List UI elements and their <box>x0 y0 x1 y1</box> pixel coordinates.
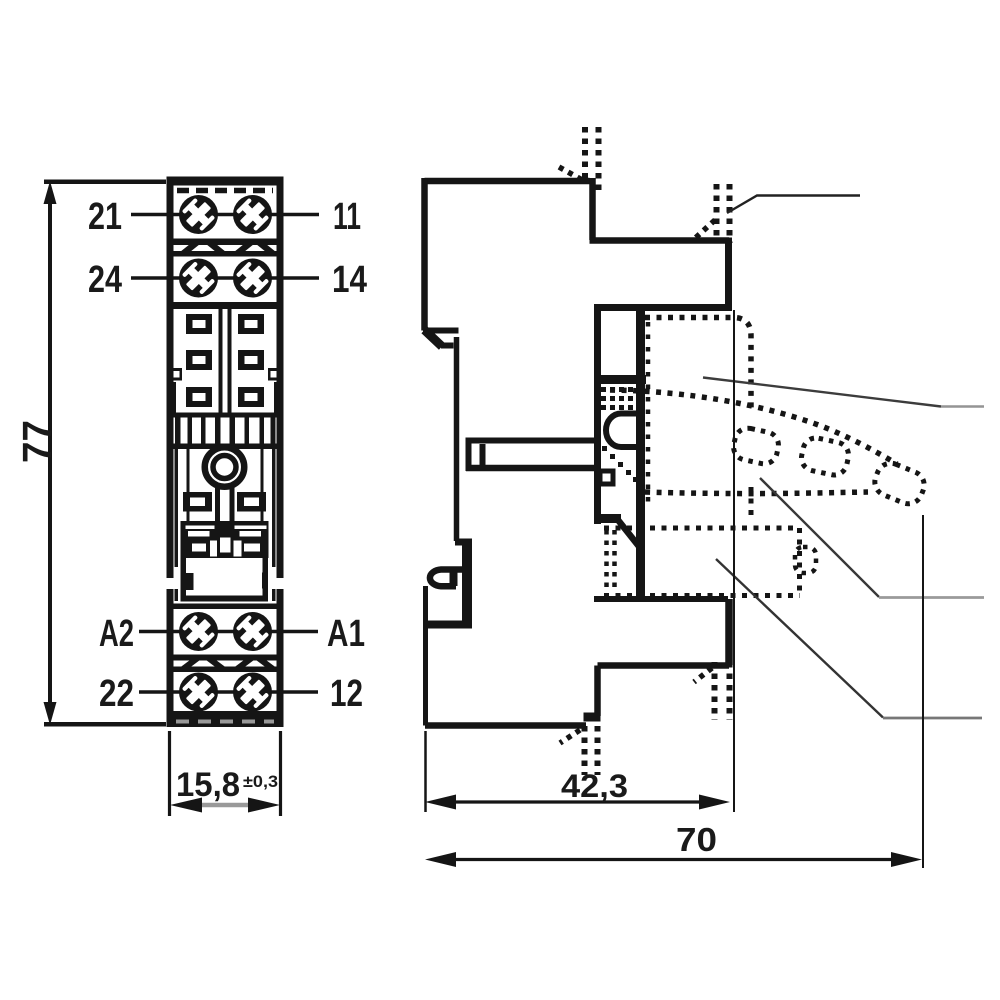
retaining clip slot <box>606 414 645 448</box>
top edge <box>425 178 590 185</box>
wire 24-14 <box>131 276 319 280</box>
dim 42,3 line <box>450 800 705 803</box>
contact windows left column <box>186 314 212 407</box>
svg-text:77: 77 <box>14 420 60 463</box>
dim 15,8 arrow right <box>248 798 280 813</box>
socket right wall <box>277 177 284 728</box>
dim 70 right extension line <box>922 515 924 868</box>
svg-text:±0,3: ±0,3 <box>243 772 278 791</box>
screw terminal 21 <box>179 195 218 234</box>
marker tag clip <box>795 547 816 573</box>
socket bottom bar <box>167 711 284 727</box>
relay body right edge lower segment <box>749 487 754 516</box>
marker tag top edge <box>604 526 797 531</box>
dim 77 arrow down <box>44 702 57 725</box>
svg-text:70: 70 <box>676 821 717 858</box>
leader 2 (relay body) <box>703 378 941 407</box>
contacts section top line <box>170 302 280 309</box>
marker tag right edge <box>797 528 802 595</box>
mounting arm inner tick <box>480 444 486 465</box>
leader 3 (test lever) <box>760 478 879 597</box>
socket left wall <box>167 177 174 728</box>
lower front shelf <box>594 596 728 602</box>
DIN clip loop <box>430 570 462 587</box>
dim 15,8 arrow left <box>170 798 202 813</box>
vent comb <box>171 413 279 450</box>
bottom step block <box>584 713 601 722</box>
relay clip 2 right prong <box>727 184 733 243</box>
clip housing jut <box>455 539 472 546</box>
wire A2-A1 <box>139 630 318 634</box>
left wall middle <box>454 337 460 541</box>
pocket bottom bar <box>594 375 646 384</box>
chamfer foot <box>441 343 454 349</box>
separator band between row A2/22 <box>170 655 280 673</box>
relay clip 2 left prong <box>714 184 720 243</box>
small inspection square <box>600 471 613 484</box>
lower rear vertical <box>594 666 601 717</box>
dim 77 line <box>48 196 52 710</box>
thin edge rails below tabs <box>173 382 278 413</box>
relay clip 2 flare <box>692 220 715 241</box>
left edge tab <box>171 368 182 381</box>
dim 42,3 left extension line <box>424 731 427 812</box>
step shelf <box>590 237 730 244</box>
lever ring 2 <box>799 436 851 478</box>
label window frame <box>181 558 269 602</box>
screw terminal A2 <box>179 612 218 651</box>
retaining-clip keyhole ring <box>205 447 245 487</box>
screw terminal 11 <box>233 195 272 234</box>
wire 21-11 <box>131 213 319 217</box>
lever tip ring 3 <box>871 459 929 508</box>
right coil window <box>237 492 266 512</box>
dim 42,3 right extension line <box>733 310 735 812</box>
test lever bottom edge <box>645 492 868 494</box>
wire 22-12 <box>139 690 318 694</box>
screw terminal A1 <box>233 612 272 651</box>
DIN rail chamfer <box>425 330 443 347</box>
dim 42,3 arrow right <box>699 795 730 810</box>
dim 77 top extension tick <box>44 180 166 185</box>
dim 42,3 arrow left <box>425 795 456 810</box>
dim 77 arrow up <box>44 181 57 204</box>
leader 1 (clip) <box>727 196 860 214</box>
DIN rail flange <box>423 328 459 334</box>
relay bottom clip left flare <box>560 730 580 743</box>
svg-text:21: 21 <box>88 196 122 238</box>
bracket assembly <box>181 521 269 558</box>
clip housing wall <box>462 542 472 626</box>
test lever top curve <box>610 390 897 464</box>
first step vertical <box>589 178 596 240</box>
svg-text:15,8: 15,8 <box>176 766 240 804</box>
marker tag left double edge <box>604 530 609 593</box>
top dashed cover line <box>177 188 273 194</box>
mounting arm bottom <box>466 465 594 472</box>
relay bottom clip left prongs <box>582 726 588 775</box>
relay clip 1 right prong <box>596 127 602 192</box>
front face upper vertical <box>725 238 732 308</box>
contact windows right column <box>238 314 264 407</box>
mid diagonal strut <box>618 520 641 549</box>
svg-text:A2: A2 <box>99 613 134 655</box>
dim 15,8 right extension line <box>279 731 282 816</box>
separator band between row 21/24 <box>170 239 280 257</box>
relay body top and right edge <box>645 318 751 413</box>
dim 70 arrow left <box>425 852 456 867</box>
inner wall rails <box>175 445 276 601</box>
mounting arm end cap <box>466 438 472 472</box>
socket top cap bar <box>167 177 284 186</box>
marker tag bottom edge <box>604 593 800 598</box>
bottom edge <box>425 722 586 729</box>
terminal block top bar <box>167 604 284 610</box>
right edge tab <box>268 368 279 381</box>
lever ring 1 <box>731 426 781 466</box>
dim 15,8 left extension line <box>168 731 171 816</box>
dim 70 line <box>450 858 896 861</box>
front face lower vertical <box>725 599 733 665</box>
relay clip 1 left prong <box>582 127 588 181</box>
svg-text:22: 22 <box>99 673 134 715</box>
relay clip 1 flare <box>559 167 585 182</box>
bottom gray dashed line <box>176 720 274 724</box>
center divider rails <box>219 309 232 413</box>
relay pin zone dots <box>601 387 638 482</box>
screw terminal 24 <box>179 258 218 297</box>
left wall lower <box>423 586 428 726</box>
lower return shelf <box>598 662 730 669</box>
dim 77 bottom extension tick <box>44 722 166 727</box>
screw terminal 22 <box>179 672 218 711</box>
left coil window <box>183 492 212 512</box>
relay body left edge <box>646 322 651 508</box>
mid shelf bar <box>594 514 621 523</box>
outer wall breaks <box>166 578 285 589</box>
clip housing bottom <box>427 621 472 629</box>
pocket top line <box>596 304 732 311</box>
relay bottom clip right flare <box>694 668 712 682</box>
rear wall <box>594 304 601 524</box>
svg-text:24: 24 <box>88 259 122 301</box>
mounting arm top <box>466 438 598 444</box>
keyhole stem <box>215 486 235 554</box>
screw terminal 14 <box>233 258 272 297</box>
svg-text:42,3: 42,3 <box>561 768 628 804</box>
svg-text:11: 11 <box>333 196 361 238</box>
pocket front wall <box>636 304 645 601</box>
left wall upper <box>421 178 428 331</box>
dim 70 arrow right <box>891 852 922 867</box>
screw terminal 12 <box>233 672 272 711</box>
dim 15,8 line <box>198 803 252 808</box>
svg-text:14: 14 <box>332 259 367 301</box>
svg-text:A1: A1 <box>327 613 365 655</box>
relay bottom clip right prongs <box>712 662 718 720</box>
leader 4 (marker tag) <box>716 559 883 718</box>
svg-text:12: 12 <box>330 673 363 715</box>
